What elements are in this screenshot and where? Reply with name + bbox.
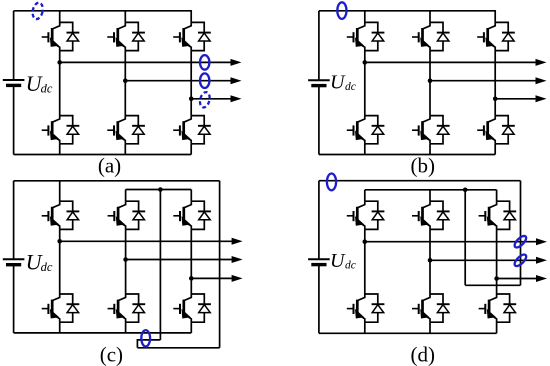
wire: (b) leg A midpoint vertical [364,51,366,116]
wire: (d) bottom DC- rail [319,332,497,334]
(d) upper switch leg C: IGBT with antiparallel diode [479,201,517,229]
(c) upper switch leg B: IGBT with antiparallel diode [108,201,146,229]
(d) phase C arrow: output arrowhead [536,275,547,282]
wire: (c) leg A midpoint vertical [59,229,61,294]
wire: (b) bottom DC- rail [319,154,495,156]
wire: (d) bypass vertical from inner line [464,190,466,285]
wire: (b) leg B bottom drop [429,144,431,155]
(c) solid fault marker bottom connection: blue ellipse fault marker [141,330,150,346]
wire: (c) leg B midpoint vertical [125,229,127,294]
wire: (c) right-side vertical [219,181,221,348]
(a) lower switch leg C: IGBT with antiparallel diode [173,116,211,144]
battery (c): DC source battery symbol [3,259,25,264]
(c) phase B arrow: output arrowhead [232,256,243,263]
(b) upper switch leg A: IGBT with antiparallel diode [347,22,385,50]
wire: (b) output line phase B [430,80,537,82]
wire: (c) leg B top drop [125,190,127,202]
svg-text:dc: dc [345,81,356,93]
wire: (b) output line phase A [365,61,537,63]
wire: (d) left DC rail upper [318,181,320,259]
wire: (d) right-side vertical [520,181,522,286]
wire: (d) leg B top drop [429,190,431,201]
(d) upper switch leg B: IGBT with antiparallel diode [412,201,450,229]
(a) node phase C: junction dot [189,97,194,102]
(a) lower switch leg A: IGBT with antiparallel diode [42,116,80,144]
wire: (b) left DC rail lower [318,86,320,154]
svg-text:(b): (b) [411,154,436,178]
wire: (d) leg C bottom drop [496,322,498,333]
wire: (d) leg B midpoint vertical [429,229,431,294]
wire: (d) bypass bottom horizontal [465,284,520,286]
(d) lower switch leg C: IGBT with antiparallel diode [479,294,517,322]
wire: (c) leg C midpoint vertical [190,229,192,294]
svg-text:dc: dc [41,82,53,96]
(d) node on inner line: junction dot [463,188,468,193]
(c) node on inner line: junction dot [158,187,163,192]
wire: (b) left DC rail upper [318,11,320,80]
battery (d): DC source battery symbol [308,259,330,264]
(c) phase C arrow: output arrowhead [232,275,243,282]
wire: (c) leg C top drop [190,190,192,202]
(c) node phase B: junction dot [123,257,128,262]
wire: (d) leg A midpoint vertical [364,229,366,294]
wire: (a) output line phase C [191,98,232,100]
(a) node phase B: junction dot [123,78,128,83]
(c) lower switch leg B: IGBT with antiparallel diode [108,294,146,322]
(c) node phase C: junction dot [189,276,194,281]
(a) lower switch leg B: IGBT with antiparallel diode [107,116,145,144]
wire: (c) bottom step left [137,340,160,348]
wire: (c) leg A bottom drop [59,322,61,333]
wire: (c) left DC rail upper [13,181,15,259]
(c) node phase A: junction dot [57,239,62,244]
(a) dashed fault marker phase C: blue ellipse fault marker [198,91,211,108]
wire: (c) leg C bottom drop [190,322,192,333]
svg-text:dc: dc [41,260,53,274]
(d) tilted fault marker crossing phase B: blue ellipse fault marker [513,253,528,268]
wire: (a) output line phase B [125,80,232,82]
(a) phase B arrow: output arrowhead [231,77,242,84]
wire: (a) bottom DC- rail [14,154,192,156]
wire: (a) DC+ top rail with corner into leg 3 [14,11,192,23]
(b) node phase C: junction dot [493,97,498,102]
wire: (c) output line phase A [60,240,234,242]
(a) upper switch leg B: IGBT with antiparallel diode [107,22,145,50]
wire: (a) leg A midpoint vertical [59,51,61,116]
wire: (a) left DC rail upper [13,11,15,79]
wire: (c) spare vertical from inner line [159,190,161,340]
wire: (d) leg C top drop [496,190,498,201]
(a) dashed fault marker on DC+ rail: blue ellipse fault marker [31,2,44,20]
wire: (b) leg C midpoint vertical [494,51,496,116]
wire: (d) inner top line legs A-B-C [365,189,497,191]
svg-text:U: U [330,250,346,272]
wire: (d) output line phase B [430,259,538,261]
wire: (b) leg C bottom drop [494,144,496,155]
wire: (a) leg A bottom drop [59,144,61,155]
(d) upper switch leg A: IGBT with antiparallel diode [347,201,385,229]
wire: (b) output line phase C [495,98,537,100]
(d) solid fault marker on outer top line: blue ellipse fault marker [327,174,336,191]
(b) upper switch leg B: IGBT with antiparallel diode [412,22,450,50]
(d) lower switch leg B: IGBT with antiparallel diode [412,294,450,322]
(d) lower switch leg A: IGBT with antiparallel diode [347,294,385,322]
wire: (a) leg A top drop [59,11,61,23]
wire: (d) leg A top drop [364,190,366,201]
(b) solid fault marker on DC+ rail: blue ellipse fault marker [337,2,346,19]
wire: (b) DC+ top rail with corner into leg 3 [319,11,495,23]
wire: (c) output line phase C [191,277,233,279]
(c) lower switch leg C: IGBT with antiparallel diode [173,294,211,322]
(a) node phase A: junction dot [57,60,62,65]
wire: (a) output line phase A [60,61,232,63]
svg-text:(a): (a) [98,154,121,178]
(b) lower switch leg B: IGBT with antiparallel diode [412,116,450,144]
wire: (c) leg A top drop [59,181,61,201]
wire: (b) leg B top drop [429,11,431,23]
svg-text:(c): (c) [100,343,123,366]
wire: (a) leg C midpoint vertical [190,51,192,116]
wire: (c) outer top line left-rail to right vertical [14,180,220,182]
wire: (d) leg C midpoint vertical [496,229,498,294]
wire: (c) leg B bottom drop [125,322,127,333]
(c) lower switch leg A: IGBT with antiparallel diode [42,294,80,322]
battery (a): DC source battery symbol [3,80,25,85]
(d) node phase C: junction dot [494,276,499,281]
wire: (c) output line phase B [126,259,234,261]
(b) node phase B: junction dot [428,78,433,83]
wire: (a) leg B bottom drop [124,144,126,155]
(d) phase A arrow: output arrowhead [536,238,547,245]
wire: (c) left DC rail lower [13,266,15,333]
wire: (c) inner top line legs B-C [126,189,192,191]
wire: (d) output line phase C [497,278,538,280]
wire: (d) leg A bottom drop [364,322,366,333]
(a) upper switch leg C: IGBT with antiparallel diode [173,22,211,50]
(b) phase A arrow: output arrowhead [536,59,547,66]
wire: (a) leg B top drop [124,11,126,23]
(b) phase C arrow: output arrowhead [536,95,547,102]
(a) phase C arrow: output arrowhead [231,95,242,102]
(d) node phase A: junction dot [363,239,368,244]
wire: (a) left DC rail lower [13,86,15,154]
wire: (b) leg B midpoint vertical [429,51,431,116]
(b) upper switch leg C: IGBT with antiparallel diode [477,22,515,50]
wire: (a) leg C bottom drop [190,144,192,155]
(d) tilted fault marker crossing phase A: blue ellipse fault marker [513,234,528,249]
wire: (a) leg B midpoint vertical [124,51,126,116]
(a) solid fault marker phase A: blue ellipse fault marker [200,55,209,70]
wire: (d) output line phase A [365,241,538,243]
svg-text:U: U [330,72,346,94]
wire: (d) outer top line [319,180,521,182]
(c) upper switch leg C: IGBT with antiparallel diode [173,201,211,229]
wire: (d) left DC rail lower [318,265,320,333]
wire: (b) leg A bottom drop [364,144,366,155]
wire: (c) bottom DC- rail [14,332,192,334]
(a) upper switch leg A: IGBT with antiparallel diode [42,22,80,50]
svg-text:(d): (d) [411,343,436,366]
(a) phase A arrow: output arrowhead [231,59,242,66]
(c) phase A arrow: output arrowhead [232,238,243,245]
(d) phase B arrow: output arrowhead [536,257,547,264]
wire: (b) leg A top drop [364,11,366,23]
(b) phase B arrow: output arrowhead [536,77,547,84]
svg-text:dc: dc [345,260,356,272]
(b) lower switch leg A: IGBT with antiparallel diode [347,116,385,144]
wire: (c) bottom return line [137,347,219,349]
(d) node phase B: junction dot [428,258,433,263]
(c) upper switch leg A: IGBT with antiparallel diode [42,201,80,229]
wire: (d) leg B bottom drop [429,322,431,333]
(b) lower switch leg C: IGBT with antiparallel diode [477,116,515,144]
battery (b): DC source battery symbol [308,80,330,85]
(b) node phase A: junction dot [363,60,368,65]
(a) solid fault marker phase B: blue ellipse fault marker [200,73,209,88]
